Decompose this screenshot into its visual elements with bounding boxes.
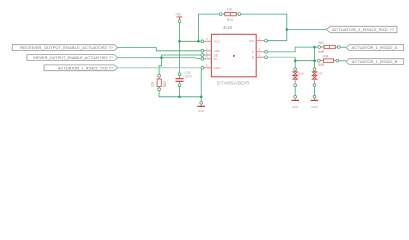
- pin 4 DI stub: [201, 55, 211, 60]
- junction RXD tee: [286, 28, 289, 31]
- net flag ACTUATOR_1_RS422_RXD: [326, 26, 397, 32]
- svg-text:54R: 54R: [318, 63, 325, 67]
- svg-text:ACTUATOR_1_RS422_B: ACTUATOR_1_RS422_B: [352, 59, 398, 64]
- wire chain1 to gnd: [294, 87, 296, 96]
- resistor R64: [318, 55, 339, 68]
- svg-text:JU5: JU5: [223, 25, 234, 30]
- svg-text:DI: DI: [214, 57, 217, 61]
- svg-text:GND: GND: [198, 109, 204, 113]
- wire row B: [295, 60, 316, 62]
- pin 6 A stub: [256, 48, 267, 53]
- pin 1 RO stub: [256, 37, 267, 43]
- junction DE tee: [160, 56, 163, 59]
- svg-text:R63: R63: [318, 41, 324, 45]
- svg-text:ST485ABDR: ST485ABDR: [217, 80, 250, 85]
- IC U5 (JU5) ST485ABDR RS-485 transceiver: [211, 25, 256, 86]
- net flag DRIVER_OUTPUT_ENABLE_ACTUATOR2: [27, 55, 118, 61]
- svg-text:GND: GND: [214, 66, 222, 70]
- wire to flag B: [339, 60, 346, 62]
- pin 2 RE stub: [201, 47, 211, 52]
- diode D17 TVS chain2: [312, 68, 323, 87]
- svg-text:D16: D16: [298, 72, 304, 76]
- svg-text:B: B: [252, 56, 254, 60]
- svg-text:7: 7: [259, 53, 261, 57]
- pin 8 VCC stub: [201, 37, 211, 42]
- pin 3 DE stub: [201, 51, 211, 56]
- svg-text:GND: GND: [311, 105, 317, 109]
- svg-text:R64: R64: [323, 55, 329, 59]
- wire flag1 to RE: [118, 48, 201, 51]
- net flag ACTUATOR_1_RS422_TXD: [44, 65, 118, 71]
- wire pin A: [268, 51, 296, 53]
- wire to flag A: [340, 46, 346, 48]
- svg-text:VCC: VCC: [214, 40, 221, 44]
- svg-text:DRIVER_OUTPUT_ENABLE_ACTUATOR2: DRIVER_OUTPUT_ENABLE_ACTUATOR2 ??: [33, 55, 114, 60]
- junction pullup-VCC: [197, 40, 200, 43]
- diode D16 TVS chain1: [293, 68, 304, 87]
- svg-text:ACTUATOR_1_RS422_RXD ??: ACTUATOR_1_RS422_RXD ??: [332, 27, 395, 32]
- svg-text:54R: 54R: [318, 50, 325, 54]
- junction row B x315: [313, 59, 316, 62]
- capacitor C25: [176, 71, 192, 87]
- ground chain1: [291, 95, 299, 108]
- wire row A cont: [313, 46, 317, 48]
- svg-text:1: 1: [259, 37, 261, 41]
- pin 7 B stub: [256, 53, 267, 59]
- wire A-B vertical link: [314, 47, 316, 68]
- svg-text:6: 6: [259, 48, 261, 52]
- wire DE jog: [162, 55, 201, 58]
- wire pullup left leg: [198, 14, 219, 41]
- junction VCC rail: [178, 40, 181, 43]
- wire VCC to IC: [180, 40, 201, 42]
- ground IC: [197, 101, 205, 113]
- wire chain2 to gnd: [314, 87, 316, 96]
- wire GND pin down: [200, 69, 202, 101]
- svg-text:R34: R34: [227, 18, 233, 22]
- svg-text:+5V: +5V: [175, 12, 182, 16]
- wire pin B: [268, 56, 296, 58]
- wire pullup right to RO column: [241, 14, 287, 41]
- svg-text:RO: RO: [249, 39, 254, 43]
- svg-text:10k: 10k: [151, 81, 155, 87]
- junction cap gnd: [178, 96, 181, 99]
- supply +5V: [175, 12, 183, 22]
- svg-text:100n: 100n: [185, 75, 192, 79]
- svg-text:D17: D17: [317, 72, 323, 76]
- wire pulldown to gnd rail: [159, 91, 201, 97]
- net flag RECEIVER_OUTPUT_ENABLE_ACTUATOR2: [12, 45, 117, 51]
- net flag ACTUATOR_1_RS422_A: [346, 45, 404, 51]
- junction gnd rail: [200, 96, 203, 99]
- wire cap to gnd rail: [179, 87, 181, 97]
- wire flag2 to DI: [118, 57, 201, 60]
- svg-text:10k: 10k: [227, 7, 233, 11]
- resistor R34: [219, 7, 240, 22]
- svg-text:GND: GND: [292, 105, 298, 109]
- junction row A: [313, 46, 316, 49]
- resistor R63: [318, 41, 340, 54]
- svg-text:R62: R62: [163, 81, 167, 87]
- pin 5 GND stub: [201, 64, 211, 70]
- wire pulldown drop: [159, 58, 161, 75]
- svg-text:ACTUATOR_1_RS422_TXD ??: ACTUATOR_1_RS422_TXD ??: [58, 65, 114, 70]
- svg-text:5: 5: [206, 64, 208, 68]
- svg-text:8: 8: [206, 37, 208, 41]
- svg-text:RECEIVER_OUTPUT_ENABLE_ACTUATO: RECEIVER_OUTPUT_ENABLE_ACTUATOR2 ??: [20, 45, 114, 50]
- net flag ACTUATOR_1_RS422_B: [346, 59, 404, 65]
- resistor R62: [151, 74, 168, 90]
- wire RXD to flag: [287, 29, 326, 31]
- wire flag3 to GND pin: [118, 67, 201, 69]
- wire RO pin: [268, 40, 287, 42]
- wire +5V vertical rail: [179, 23, 181, 73]
- junction row B start: [294, 59, 297, 62]
- ground chain2: [311, 95, 319, 108]
- svg-text:ACTUATOR_1_RS422_A: ACTUATOR_1_RS422_A: [352, 45, 398, 50]
